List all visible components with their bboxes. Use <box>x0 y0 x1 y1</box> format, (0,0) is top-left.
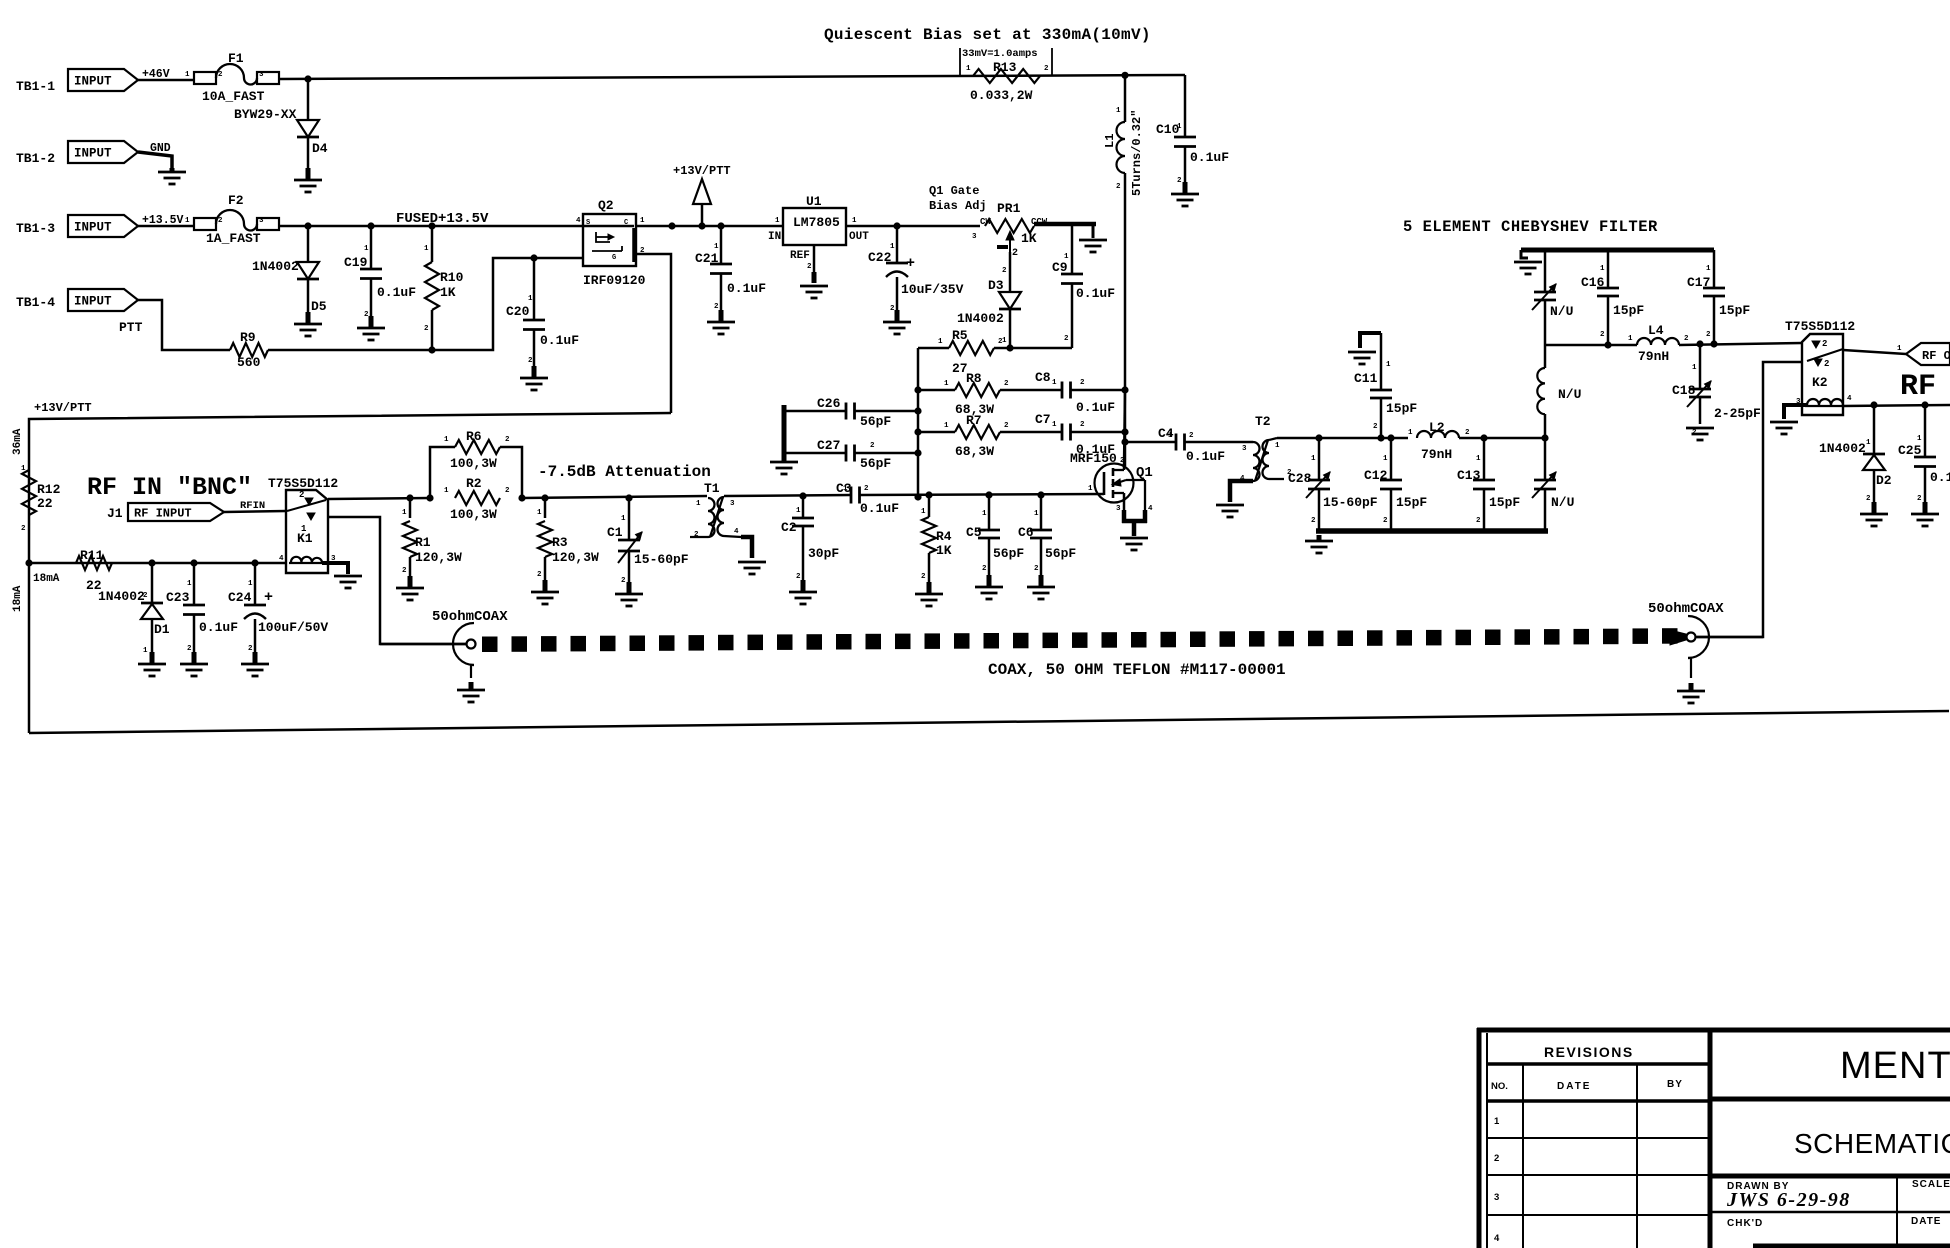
inductor N/U vertical <box>1537 345 1581 438</box>
svg-text:1: 1 <box>364 245 369 253</box>
svg-text:1: 1 <box>944 422 949 430</box>
current sense tick marks with 33mV=1.0amps <box>960 48 1052 75</box>
svg-text:1K: 1K <box>1021 231 1037 246</box>
svg-text:C23: C23 <box>166 590 190 605</box>
svg-text:2: 2 <box>1600 331 1605 339</box>
capacitor C16 15pF <box>1581 250 1644 345</box>
svg-text:1: 1 <box>1116 107 1121 115</box>
svg-text:1N4002: 1N4002 <box>252 259 299 274</box>
svg-text:1: 1 <box>248 580 253 588</box>
svg-text:RF OUT: RF OUT <box>1922 349 1950 363</box>
svg-text:1: 1 <box>1168 432 1173 440</box>
svg-text:2: 2 <box>1494 1153 1499 1164</box>
resistor R2 100 3W <box>426 476 525 522</box>
svg-text:2: 2 <box>1917 495 1922 503</box>
svg-text:IN: IN <box>768 231 781 243</box>
coax shield dashed line <box>482 628 1678 652</box>
svg-text:1: 1 <box>444 487 449 495</box>
wire Q2 drain to +13V/PTT net <box>636 222 783 229</box>
wire T1 secondary to ground <box>724 536 752 558</box>
svg-text:IRF09120: IRF09120 <box>583 273 646 288</box>
fuse F1 10A_FAST <box>185 51 279 104</box>
svg-text:1: 1 <box>1628 335 1633 343</box>
transistor Q2 IRF09120 pass switch <box>576 198 646 288</box>
svg-text:1: 1 <box>528 295 533 303</box>
capacitor C1 15-60pF variable <box>607 498 689 590</box>
svg-text:3: 3 <box>1494 1192 1499 1203</box>
svg-text:Bias Adj: Bias Adj <box>929 199 987 213</box>
svg-text:SCALE: SCALE <box>1912 1179 1950 1190</box>
svg-text:4: 4 <box>576 217 581 225</box>
svg-text:R1: R1 <box>415 535 431 550</box>
svg-text:1: 1 <box>187 580 192 588</box>
svg-text:1: 1 <box>1177 123 1182 131</box>
svg-text:1: 1 <box>301 524 307 534</box>
svg-text:2: 2 <box>694 531 699 539</box>
ground at right coax <box>1677 683 1705 703</box>
svg-text:R2: R2 <box>466 476 482 491</box>
ground at K2 coil <box>1770 422 1798 434</box>
wire K2 coil to ground <box>1784 405 1807 419</box>
svg-text:2: 2 <box>1824 359 1829 369</box>
svg-text:PR1: PR1 <box>997 201 1021 216</box>
ground at filter bottom bus <box>1305 535 1333 553</box>
text 5 ELEMENT CHEBYSHEV FILTER <box>1403 218 1658 236</box>
inductor L2 79nH <box>1408 420 1470 462</box>
svg-text:2: 2 <box>1034 565 1039 573</box>
svg-text:1: 1 <box>1408 429 1413 437</box>
svg-text:DATE: DATE <box>1557 1081 1591 1092</box>
wire TB1-3 to fuse F2 <box>138 225 194 228</box>
svg-text:1: 1 <box>1494 1116 1500 1127</box>
svg-text:-7.5dB Attenuation: -7.5dB Attenuation <box>538 463 711 481</box>
svg-text:1: 1 <box>185 217 190 225</box>
capacitor C7 0.1uF <box>1000 412 1125 457</box>
svg-text:15pF: 15pF <box>1489 495 1520 510</box>
svg-text:56pF: 56pF <box>1045 546 1076 561</box>
text Quiescent Bias note <box>824 26 1151 44</box>
svg-text:0.033,2W: 0.033,2W <box>970 88 1033 103</box>
wire T2 to ground <box>1230 481 1253 502</box>
svg-text:1: 1 <box>966 65 971 73</box>
svg-text:2: 2 <box>621 577 626 585</box>
diode D5 1N4002 <box>252 226 327 320</box>
wire K1 coil to ground <box>322 563 348 574</box>
svg-text:1: 1 <box>444 436 449 444</box>
svg-text:22: 22 <box>37 496 53 511</box>
svg-text:R6: R6 <box>466 429 482 444</box>
svg-text:2: 2 <box>364 311 369 319</box>
svg-text:1N4002: 1N4002 <box>98 589 145 604</box>
svg-text:1: 1 <box>1917 435 1922 443</box>
svg-text:15-60pF: 15-60pF <box>1323 495 1378 510</box>
svg-text:2: 2 <box>921 573 926 581</box>
svg-text:C11: C11 <box>1354 371 1378 386</box>
svg-text:G: G <box>612 254 616 262</box>
svg-text:33mV=1.0amps: 33mV=1.0amps <box>962 48 1038 60</box>
capacitor C19 0.1uF <box>344 226 416 324</box>
wire filter middle row <box>1545 340 1802 348</box>
resistor R10 1K <box>424 226 464 350</box>
wire Q2 pin2 down to +13V/PTT bus <box>636 254 671 413</box>
ground below C1 <box>615 582 643 606</box>
ground below C24 <box>241 652 269 676</box>
svg-text:K2: K2 <box>1812 375 1828 390</box>
svg-text:100uF/50V: 100uF/50V <box>258 620 328 635</box>
capacitor C21 0.1uF <box>695 226 766 318</box>
svg-text:0.1uF: 0.1uF <box>860 501 899 516</box>
svg-text:PTT: PTT <box>119 320 143 335</box>
svg-text:3: 3 <box>730 500 735 508</box>
resistor R3 120 3W <box>537 498 599 588</box>
svg-text:C: C <box>624 219 628 227</box>
svg-text:0.1uF: 0.1uF <box>1076 400 1115 415</box>
wire +46V rail from F1 to L1 corner <box>279 72 1185 131</box>
wire R11 row <box>25 559 286 566</box>
svg-text:3: 3 <box>259 217 264 225</box>
capacitor C20 0.1uF <box>506 258 579 374</box>
svg-text:T1: T1 <box>704 481 720 496</box>
ground below D1 <box>138 652 166 676</box>
capacitor C8 0.1uF <box>1000 370 1125 415</box>
svg-text:100,3W: 100,3W <box>450 456 497 471</box>
svg-text:N/U: N/U <box>1558 387 1581 402</box>
svg-text:NO.: NO. <box>1491 1081 1508 1092</box>
svg-text:1: 1 <box>1706 265 1711 273</box>
wire U1 OUT to PR1 <box>846 222 980 229</box>
text Q1 Gate Bias Adj <box>929 184 987 213</box>
ground below C19 <box>357 316 385 340</box>
svg-text:2: 2 <box>505 487 510 495</box>
svg-text:3: 3 <box>1242 445 1247 453</box>
wire J1 to relay K1 <box>224 511 286 512</box>
title block company name MENTOR <box>1840 1045 1950 1087</box>
svg-text:R7: R7 <box>966 413 982 428</box>
resistor R11 22 <box>76 548 112 593</box>
svg-text:L4: L4 <box>1648 323 1664 338</box>
svg-text:U1: U1 <box>806 194 822 209</box>
wire bottom border <box>29 711 1949 733</box>
ground below C20 <box>520 366 548 390</box>
power flag +13V/PTT triangle <box>673 164 731 226</box>
svg-text:0.1uF: 0.1uF <box>377 285 416 300</box>
text RF OUT large <box>1900 370 1950 404</box>
transformer T1 <box>690 481 739 539</box>
svg-text:1: 1 <box>796 507 801 515</box>
svg-text:DATE: DATE <box>1911 1216 1941 1227</box>
capacitor C23 0.1uF <box>166 563 238 660</box>
svg-text:C20: C20 <box>506 304 530 319</box>
svg-text:D1: D1 <box>154 622 170 637</box>
title block drawn by row <box>1710 1176 1950 1248</box>
svg-text:2: 2 <box>796 573 801 581</box>
svg-text:1N4002: 1N4002 <box>957 311 1004 326</box>
svg-text:1N4002: 1N4002 <box>1819 441 1866 456</box>
svg-text:LM7805: LM7805 <box>793 215 840 230</box>
diode D2 1N4002 <box>1819 405 1892 510</box>
svg-text:T75S5D112: T75S5D112 <box>268 476 338 491</box>
svg-text:D2: D2 <box>1876 473 1892 488</box>
svg-text:2: 2 <box>1044 65 1049 73</box>
svg-text:RF INPUT: RF INPUT <box>134 507 192 521</box>
svg-text:1: 1 <box>843 485 848 493</box>
wire U1 REF to ground <box>807 245 814 283</box>
svg-text:CHK'D: CHK'D <box>1727 1218 1763 1229</box>
svg-text:SCHEMATIC: SCHEMATIC <box>1794 1128 1950 1159</box>
capacitor C28 15-60pF variable <box>1288 438 1378 531</box>
svg-text:2: 2 <box>1004 422 1009 430</box>
svg-text:1: 1 <box>402 509 407 517</box>
svg-text:RF OUT: RF OUT <box>1900 370 1950 404</box>
svg-text:C1: C1 <box>607 525 623 540</box>
capacitor C26 56pF <box>786 396 918 429</box>
svg-text:2: 2 <box>1002 267 1007 275</box>
svg-text:REF: REF <box>790 250 810 262</box>
svg-text:120,3W: 120,3W <box>552 550 599 565</box>
svg-text:1: 1 <box>696 500 701 508</box>
svg-text:2: 2 <box>1116 183 1121 191</box>
title block line under company <box>1710 1097 1950 1102</box>
transistor Q1 MRF150 <box>1070 451 1153 513</box>
capacitor C9 0.1uF <box>1052 224 1115 348</box>
ground below C18 <box>1686 428 1714 440</box>
svg-text:30pF: 30pF <box>808 546 839 561</box>
text COAX 50 OHM TEFLON <box>988 661 1286 679</box>
title block JWS signature <box>1726 1189 1851 1211</box>
svg-text:2: 2 <box>1465 429 1470 437</box>
svg-text:TB1-2: TB1-2 <box>16 151 55 166</box>
svg-text:C28: C28 <box>1288 471 1312 486</box>
resistor R13 0.033 2W <box>966 60 1049 103</box>
wire TB1-2 to ground <box>138 152 172 168</box>
svg-text:BY: BY <box>1667 1079 1683 1090</box>
svg-text:2: 2 <box>1064 335 1069 343</box>
svg-text:4: 4 <box>1847 395 1852 403</box>
svg-text:R9: R9 <box>240 330 256 345</box>
capacitor C11 15pF <box>1354 333 1417 438</box>
svg-text:1: 1 <box>1476 455 1481 463</box>
ground below D2 <box>1860 502 1888 526</box>
thick ground bar for C26/C27 <box>782 405 787 458</box>
connector TB1-2 INPUT flag (GND) <box>16 141 171 166</box>
svg-text:Quiescent Bias set at 330mA(10: Quiescent Bias set at 330mA(10mV) <box>824 26 1151 44</box>
svg-text:2: 2 <box>1866 495 1871 503</box>
svg-text:1: 1 <box>1275 442 1280 450</box>
svg-text:T2: T2 <box>1255 414 1271 429</box>
svg-text:1: 1 <box>775 217 780 225</box>
capacitor N/U variable lower <box>1532 438 1574 531</box>
svg-text:1: 1 <box>1064 253 1069 261</box>
wire C3 to Q1 gate <box>860 491 1105 498</box>
wire Q1 source to ground <box>1122 493 1147 536</box>
svg-text:F1: F1 <box>228 51 244 66</box>
transformer T2 <box>1240 414 1292 483</box>
svg-text:2: 2 <box>998 338 1003 346</box>
svg-text:1A_FAST: 1A_FAST <box>206 231 261 246</box>
capacitor C12 15pF <box>1364 438 1427 531</box>
svg-text:1: 1 <box>1600 265 1605 273</box>
svg-text:2: 2 <box>505 436 510 444</box>
svg-text:2: 2 <box>1476 517 1481 525</box>
svg-text:1: 1 <box>1383 455 1388 463</box>
resistor R4 1K <box>921 495 952 590</box>
svg-text:15pF: 15pF <box>1613 303 1644 318</box>
connector J1 RF INPUT flag <box>107 500 265 521</box>
connector left 50ohmCOAX <box>380 609 508 678</box>
svg-text:+13V/PTT: +13V/PTT <box>34 401 92 415</box>
svg-text:F2: F2 <box>228 193 244 208</box>
capacitor C17 15pF <box>1687 250 1750 344</box>
ground below R3 <box>531 580 559 604</box>
svg-text:2: 2 <box>1684 335 1689 343</box>
svg-text:120,3W: 120,3W <box>415 550 462 565</box>
ground below C21 <box>707 310 735 334</box>
svg-text:0.1uF: 0.1uF <box>199 620 238 635</box>
wire attenuator middle <box>522 494 707 501</box>
svg-text:4: 4 <box>1494 1233 1500 1244</box>
svg-text:2: 2 <box>1383 517 1388 525</box>
ground at T2 <box>1216 505 1244 517</box>
svg-text:R13: R13 <box>993 60 1017 75</box>
wire PR1 CCW to ground bar <box>1034 224 1096 238</box>
svg-text:1: 1 <box>621 515 626 523</box>
ground TB1-2 <box>158 168 186 184</box>
wire K2 common to RF OUT flag <box>1843 345 1906 354</box>
svg-text:1: 1 <box>714 243 719 251</box>
svg-text:2: 2 <box>1080 379 1085 387</box>
ground below C6 <box>1027 575 1055 599</box>
potentiometer PR1 1K <box>972 201 1048 259</box>
svg-text:2: 2 <box>982 565 987 573</box>
svg-text:2: 2 <box>870 442 875 450</box>
svg-text:INPUT: INPUT <box>74 221 112 235</box>
svg-text:1: 1 <box>938 338 943 346</box>
svg-text:3: 3 <box>972 233 977 241</box>
svg-text:15-60pF: 15-60pF <box>634 552 689 567</box>
svg-text:BYW29-XX: BYW29-XX <box>234 107 297 122</box>
capacitor N/U variable upper <box>1532 252 1573 345</box>
svg-text:0.1uF: 0.1uF <box>1186 449 1225 464</box>
svg-text:1: 1 <box>921 508 926 516</box>
wire bias vertical node at x=918 <box>914 348 921 501</box>
svg-text:OUT: OUT <box>849 231 869 243</box>
relay K2 T75S5D112 <box>1785 319 1855 415</box>
svg-text:2: 2 <box>187 645 192 653</box>
svg-text:INPUT: INPUT <box>74 75 112 89</box>
svg-text:N/U: N/U <box>1550 304 1573 319</box>
wire K2 NC throw to coax <box>1697 362 1802 637</box>
svg-text:+: + <box>264 589 273 606</box>
svg-text:1: 1 <box>944 380 949 388</box>
svg-text:2: 2 <box>537 571 542 579</box>
capacitor C4 0.1uF series <box>1125 426 1253 464</box>
svg-text:C2: C2 <box>781 520 797 535</box>
capacitor C13 15pF <box>1457 438 1520 531</box>
ground below U1 REF <box>800 286 828 298</box>
svg-text:4: 4 <box>1148 505 1153 513</box>
svg-text:1: 1 <box>1034 510 1039 518</box>
svg-text:15pF: 15pF <box>1386 401 1417 416</box>
svg-text:TB1-4: TB1-4 <box>16 295 55 310</box>
svg-text:100,3W: 100,3W <box>450 507 497 522</box>
svg-text:56pF: 56pF <box>993 546 1024 561</box>
ground at K1 coil <box>334 576 362 588</box>
diode D3 1N4002 <box>957 252 1021 348</box>
svg-text:2: 2 <box>528 357 533 365</box>
svg-text:1K: 1K <box>936 543 952 558</box>
wire +13V/PTT bus <box>29 401 671 733</box>
capacitor C3 0.1uF series <box>836 481 899 516</box>
svg-text:0.1uF: 0.1uF <box>1076 286 1115 301</box>
ground at T1 pin4 <box>738 562 766 574</box>
svg-text:INPUT: INPUT <box>74 295 112 309</box>
ground below R4 <box>915 582 943 606</box>
svg-text:2: 2 <box>299 490 304 500</box>
ground below C26/C27 bar <box>770 458 798 474</box>
svg-text:C27: C27 <box>817 438 840 453</box>
ground at Q1 source <box>1120 538 1148 550</box>
wire T1 to C3 <box>724 492 851 499</box>
svg-text:R12: R12 <box>37 482 61 497</box>
svg-text:1: 1 <box>852 217 857 225</box>
capacitor C22 10uF/35V electrolytic <box>868 226 964 318</box>
svg-text:JWS 6-29-98: JWS 6-29-98 <box>1726 1189 1851 1211</box>
svg-text:0.1uF: 0.1uF <box>1930 470 1950 485</box>
inductor L1 5Turns <box>1103 75 1144 466</box>
svg-text:L2: L2 <box>1429 420 1445 435</box>
svg-text:2: 2 <box>1080 421 1085 429</box>
resistor R12 22 <box>21 465 61 533</box>
diode D4 BYW29-XX <box>234 79 328 176</box>
svg-text:2: 2 <box>714 303 719 311</box>
diode D1 1N4002 <box>98 563 170 660</box>
svg-text:L1: L1 <box>1103 134 1117 148</box>
svg-text:10A_FAST: 10A_FAST <box>202 89 265 104</box>
svg-text:1: 1 <box>1386 361 1391 369</box>
svg-text:1: 1 <box>537 509 542 517</box>
resistor R8 68 3W <box>918 371 1009 417</box>
wire filter top bus thick <box>1521 250 1714 258</box>
svg-text:C26: C26 <box>817 396 841 411</box>
svg-text:50ohmCOAX: 50ohmCOAX <box>1648 601 1724 617</box>
svg-text:D3: D3 <box>988 278 1004 293</box>
svg-text:1: 1 <box>143 647 148 655</box>
wire L2 to corner <box>1459 434 1549 441</box>
svg-text:MENTOR: MENTOR <box>1840 1045 1950 1087</box>
svg-text:10uF/35V: 10uF/35V <box>901 282 964 297</box>
wire filter bottom bus thick <box>1316 528 1548 534</box>
title block chkd row <box>1710 1212 1950 1229</box>
svg-text:2: 2 <box>1189 432 1194 440</box>
ground below C5 <box>975 575 1003 599</box>
capacitor C27 56pF <box>786 438 918 471</box>
capacitor C6 56pF <box>1018 495 1076 583</box>
svg-text:Q2: Q2 <box>598 198 614 213</box>
wire fused 13.5V rail to Q2 <box>279 211 583 230</box>
svg-text:2: 2 <box>1373 423 1378 431</box>
connector RF OUT flag <box>1906 343 1950 365</box>
capacitor C25 0.1uF <box>1898 405 1950 510</box>
svg-text:J1: J1 <box>107 506 123 521</box>
wire TB1-4 PTT to R9 <box>138 300 230 350</box>
svg-text:15pF: 15pF <box>1396 495 1427 510</box>
svg-text:FUSED+13.5V: FUSED+13.5V <box>396 211 489 227</box>
ground below D4 <box>294 168 322 192</box>
svg-text:2: 2 <box>1706 331 1711 339</box>
svg-text:+13V/PTT: +13V/PTT <box>673 164 731 178</box>
resistor R9 560 <box>230 330 268 370</box>
svg-text:79nH: 79nH <box>1421 447 1452 462</box>
